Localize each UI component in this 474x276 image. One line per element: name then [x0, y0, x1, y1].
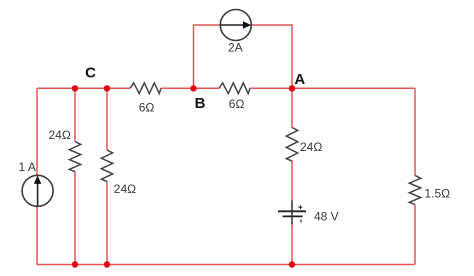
node junction dot at (107,88) [104, 85, 110, 91]
node junction dot at C left (75,88) [72, 85, 78, 91]
wire: node A branch, A down to 24ohm resistor [291, 88, 293, 127]
node junction dot bottom (107,264) [104, 261, 110, 267]
wire: right vertical branch, top to 1.5ohm resistor [414, 88, 416, 175]
svg-text:2A: 2A [228, 41, 243, 55]
battery V1 48V negative plate [283, 215, 303, 217]
wire: node A branch, 24ohm resistor to battery [291, 161, 293, 201]
node junction dot bottom (292,264) [289, 261, 295, 267]
svg-text:1 A: 1 A [19, 160, 36, 174]
resistor R1 6ohm (horizontal, C to B) [130, 83, 161, 94]
svg-text:1.5Ω: 1.5Ω [425, 187, 451, 201]
wire: 24ohm branch at x=75, below resistor [74, 172, 76, 265]
current source I2 1A arrow [34, 175, 41, 205]
wire: 24ohm branch at x=107, below resistor [106, 182, 108, 265]
svg-text:24Ω: 24Ω [114, 182, 136, 196]
resistor R5 24ohm (vertical below node A) [286, 128, 297, 162]
wire: main horizontal bus, second 6ohm resistor to top-right corner [250, 87, 415, 89]
wire: left vertical branch with 1A source [36, 88, 38, 264]
resistor R3 24ohm (vertical at x=75) [69, 142, 80, 172]
current source I2 1A (circle) [22, 175, 53, 206]
svg-text:6Ω: 6Ω [139, 100, 155, 114]
node junction dot A (292,88) [289, 85, 295, 91]
battery V1 48V positive plate [278, 210, 306, 212]
battery V1 48V center lead [291, 201, 293, 225]
wire: main horizontal bus, between the two 6ohm resistors [161, 87, 219, 89]
resistor R6 1.5ohm (vertical right branch) [409, 175, 420, 204]
svg-text:B: B [195, 95, 206, 112]
wire: 24ohm branch at x=107, above resistor [106, 88, 108, 150]
battery minus mark [300, 219, 302, 222]
svg-text:24Ω: 24Ω [300, 140, 322, 154]
node junction dot bottom (75,264) [72, 261, 78, 267]
svg-text:C: C [85, 64, 96, 81]
wire: bottom bus [37, 264, 415, 266]
current source I1 2A (circle) [220, 10, 251, 41]
svg-text:A: A [294, 71, 305, 88]
svg-text:6Ω: 6Ω [229, 97, 245, 111]
wire: 2A source loop from node B up, across, down to node A [194, 25, 293, 88]
wire: node A branch, battery to bottom bus [291, 225, 293, 265]
resistor R4 24ohm (vertical at x=107) [101, 150, 112, 182]
battery plus mark [298, 205, 302, 209]
svg-text:48 V: 48 V [314, 209, 339, 223]
node junction dot B (193.5,88) [190, 85, 196, 91]
current source I1 2A arrow [221, 21, 252, 28]
resistor R2 6ohm (horizontal, B to A) [219, 83, 250, 94]
wire: main horizontal bus, left end to first 6ohm resistor [37, 87, 130, 89]
wire: 24ohm branch at x=75, above resistor [74, 88, 76, 141]
svg-text:24Ω: 24Ω [49, 128, 71, 142]
wire: right vertical branch, 1.5ohm resistor to bottom [414, 205, 416, 265]
